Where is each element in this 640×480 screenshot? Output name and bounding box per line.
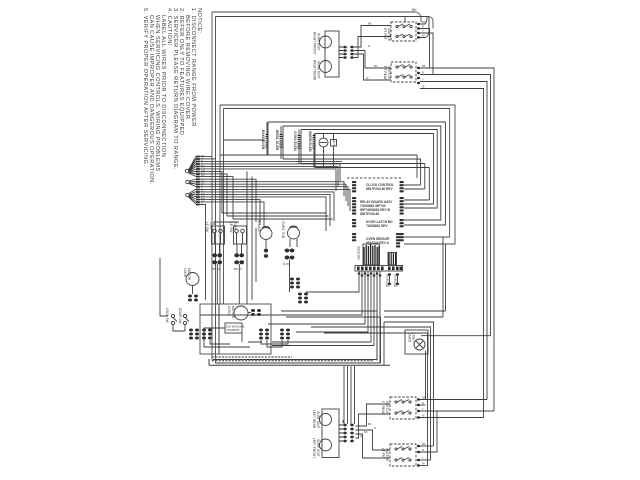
svg-text:LOCK SW: LOCK SW: [165, 308, 169, 323]
svg-text:SWITCH: SWITCH: [385, 401, 389, 415]
wire SW-LF2 out 2: [420, 411, 437, 452]
connector pins right of SW-LR2: [417, 398, 420, 466]
svg-text:8507P234-60 REV: 8507P234-60 REV: [366, 187, 393, 191]
resistor element R4: [308, 131, 314, 152]
wire SW-LF2 out 3: [420, 459, 431, 461]
inner console box inner left: [223, 109, 225, 305]
wire connector to SW-RR bottom: [354, 54, 391, 80]
node RIGHT REAR label: [313, 60, 321, 81]
svg-text:DOOR SW: DOOR SW: [178, 308, 182, 324]
switch SW-LR2 dashed box: [390, 397, 416, 419]
left rear surface unit box bottom: [322, 409, 339, 458]
svg-text:BU: BU: [374, 64, 378, 68]
svg-text:CONV ELEM: CONV ELEM: [293, 131, 297, 151]
node RIGHT FRONT label: [313, 32, 321, 54]
control board EOC dashed outline: [347, 177, 401, 179]
resistor nest box 1: [220, 122, 445, 225]
switch SW-RR contacts: [396, 65, 412, 79]
svg-text:RIGHT REAR: RIGHT REAR: [313, 60, 317, 81]
node wire color labels fan: [201, 154, 205, 206]
svg-text:SURF UNIT: SURF UNIT: [317, 33, 321, 51]
fuse F2: [393, 273, 399, 287]
connector P2 bottom: [339, 424, 354, 443]
svg-text:R W: R W: [283, 262, 289, 266]
bus cross wires to switch column: [214, 213, 333, 225]
resistor element R1: [261, 130, 267, 150]
notice text block: [142, 8, 202, 185]
switch SW-RF dashed box: [391, 22, 416, 41]
svg-text:BK: BK: [412, 8, 417, 12]
wire connector to SW-RF top: [354, 26, 391, 48]
svg-text:74008652 REV: 74008652 REV: [366, 224, 388, 228]
svg-text:BK: BK: [422, 442, 426, 446]
svg-text:8507P234-60: 8507P234-60: [360, 212, 379, 216]
svg-text:OVEN TOD: OVEN TOD: [281, 221, 285, 239]
svg-text:Y: Y: [422, 78, 424, 82]
node SW-RF label: [381, 28, 391, 42]
wires inside lower oven box: [204, 328, 288, 347]
svg-text:SURF UNIT: SURF UNIT: [316, 411, 320, 429]
svg-text:LF SW: LF SW: [205, 222, 209, 233]
svg-text:BK: BK: [422, 20, 426, 24]
svg-text:3218 GN: 3218 GN: [357, 246, 361, 260]
lower oven box: [200, 304, 271, 354]
switch SW-LF cluster: [205, 222, 225, 244]
wire oven light to loop: [421, 335, 491, 337]
wire SW-LF2 out 4: [420, 465, 428, 467]
feed wires to bottom connector: [339, 366, 355, 424]
wire bottom connector to SW-LR2 b: [356, 414, 391, 438]
node LEFT REAR label: [312, 410, 320, 429]
wire connector to SW-RR top: [354, 51, 391, 69]
main harness connector fan: [185, 157, 196, 205]
wire SW-LF2 out 1: [420, 445, 434, 447]
wire bottom connector to SW-LR2: [356, 404, 391, 426]
svg-text:Y: Y: [422, 407, 424, 411]
fuse F1: [385, 273, 391, 287]
wire L2 top inner: [216, 17, 434, 29]
node SW-LR2 label: [381, 401, 389, 416]
resistor left front element: [320, 439, 332, 451]
node SW-RR label: [383, 66, 391, 81]
wire SW-LR2 out 3: [420, 410, 494, 412]
wire SW-LR2 out 1: [420, 399, 487, 401]
svg-text:BK W: BK W: [212, 267, 220, 271]
wire SW-RF out 1: [420, 17, 427, 25]
connector pins right of SW-RF: [417, 23, 420, 84]
wire oven light down: [425, 351, 427, 400]
resistor nest box 3: [301, 130, 437, 209]
wire SW-LR2 out 2: [420, 404, 426, 406]
wire sw-rf to line2: [404, 17, 406, 23]
wire L1 top outer: [212, 12, 421, 22]
connector pins below SW-LR: [234, 253, 244, 271]
svg-text:5. VERIFY PROPER OPERATION AFT: 5. VERIFY PROPER OPERATION AFTER SERVICI…: [142, 8, 148, 166]
wire bottom connector to SW-LF2: [356, 430, 391, 450]
svg-text:BK: BK: [422, 64, 426, 68]
wire SW-RF out 3: [420, 33, 433, 75]
svg-text:LR SW: LR SW: [229, 222, 233, 233]
svg-text:BU: BU: [364, 430, 368, 434]
thermostat TOD1: [257, 220, 272, 258]
switch SW-RR dashed box: [391, 62, 416, 82]
right rear surface unit box: [325, 31, 339, 77]
convection motor M3: [227, 306, 261, 320]
node LEFT FRONT label: [312, 438, 320, 458]
inner console box outer: [220, 105, 455, 244]
svg-text:LEFT REAR: LEFT REAR: [312, 410, 316, 429]
svg-text:SURF UNIT: SURF UNIT: [317, 61, 321, 79]
board text row 1: [360, 183, 394, 245]
svg-text:RT FRT: RT FRT: [383, 28, 387, 40]
wire SW-RR out to right drop 1: [420, 68, 494, 411]
control board left pin column group1: [352, 181, 404, 248]
resistor nest box 4: [315, 134, 434, 205]
svg-text:BK W: BK W: [234, 267, 242, 271]
relay K1: [331, 140, 337, 147]
node wire labels top switches: [360, 20, 426, 466]
door lock motor M2: [183, 268, 199, 302]
inner console box outer left: [219, 105, 221, 304]
wire SW-RF out 2: [420, 29, 430, 69]
wire left spine outer: [211, 12, 213, 361]
wire connector to SW-RF bottom: [354, 37, 391, 58]
inner console box inner: [224, 109, 450, 238]
risers right of oven box: [281, 237, 446, 466]
svg-text:WARM ELEM: WARM ELEM: [308, 131, 312, 152]
node SW-LF2 label: [381, 448, 389, 462]
svg-text:BK: BK: [368, 422, 372, 426]
harness bus wires: [200, 156, 351, 304]
pins mid-left of board drop: [290, 278, 308, 304]
board bottom drop wires: [200, 271, 382, 363]
wire element stubs: [267, 122, 334, 168]
wire SW-RR out to right drop 4: [420, 89, 484, 418]
svg-text:R: R: [368, 44, 370, 48]
svg-text:LEFT FRONT: LEFT FRONT: [312, 438, 316, 458]
switch SW-LF2 contacts: [395, 447, 411, 462]
svg-text:F2 FUSE: F2 FUSE: [393, 274, 397, 287]
svg-text:74008656: 74008656: [226, 328, 240, 332]
connector pin strip: [196, 156, 200, 206]
wire bottom connector to SW-LF2 b: [356, 434, 391, 458]
svg-text:RLY: RLY: [332, 140, 336, 146]
svg-text:BK: BK: [422, 396, 426, 400]
svg-text:RIGHT FRONT: RIGHT FRONT: [313, 32, 317, 54]
motor M1 convection: [319, 138, 328, 147]
svg-text:R: R: [422, 25, 424, 29]
board bottom connector strip: [355, 266, 403, 272]
switch SW-LF2 dashed box: [390, 444, 416, 466]
resistor right rear element: [320, 61, 332, 73]
DSI module U1: [225, 323, 245, 333]
switch SW-RF contacts: [396, 24, 412, 38]
wire SW-RR out to right drop 2: [420, 75, 491, 336]
transformer T1 block: [357, 244, 380, 265]
resistor left rear element: [320, 414, 332, 426]
resistor element R3: [293, 131, 299, 151]
resistor element R2: [275, 130, 281, 151]
thermostat TOD2: [281, 221, 300, 247]
wire SW-RF out 4: [420, 17, 429, 38]
wire SW-LR2 out 4: [420, 417, 484, 419]
svg-text:BROIL ELEM: BROIL ELEM: [275, 130, 279, 151]
resistor right front element: [320, 36, 332, 48]
relay block K2: [388, 252, 397, 265]
connector pins below TOD2: [283, 249, 294, 267]
connector P1 right side: [339, 46, 354, 59]
svg-text:R: R: [422, 448, 424, 452]
svg-text:SURF UNIT: SURF UNIT: [316, 439, 320, 457]
oven light box: [405, 330, 428, 354]
svg-text:BAKE ELEM: BAKE ELEM: [261, 130, 265, 150]
switch SW-LR2 contacts: [395, 400, 411, 415]
door lock switch S1: [160, 258, 189, 331]
svg-text:F1 FUSE: F1 FUSE: [385, 274, 389, 287]
svg-text:Y: Y: [422, 29, 424, 33]
connector pins group bottom left: [189, 329, 290, 340]
board right pin column: [396, 181, 404, 248]
wire left spine inner: [215, 17, 217, 364]
svg-text:SWITCH: SWITCH: [387, 28, 391, 42]
svg-text:BK: BK: [368, 22, 372, 26]
wire SW-RR out to right drop 3: [420, 82, 487, 400]
svg-text:Y: Y: [422, 456, 424, 460]
svg-text:R: R: [422, 71, 424, 75]
svg-text:OVEN: OVEN: [408, 333, 412, 343]
svg-text:LT REAR: LT REAR: [381, 401, 385, 416]
svg-text:R: R: [374, 426, 376, 430]
bottom feed bars: [209, 304, 390, 365]
resistor nest box 2: [283, 126, 441, 220]
connector pins below SW-LF: [212, 253, 222, 271]
svg-text:R: R: [422, 401, 424, 405]
switch SW-LR cluster: [229, 222, 247, 244]
svg-text:CONV: CONV: [227, 306, 231, 316]
